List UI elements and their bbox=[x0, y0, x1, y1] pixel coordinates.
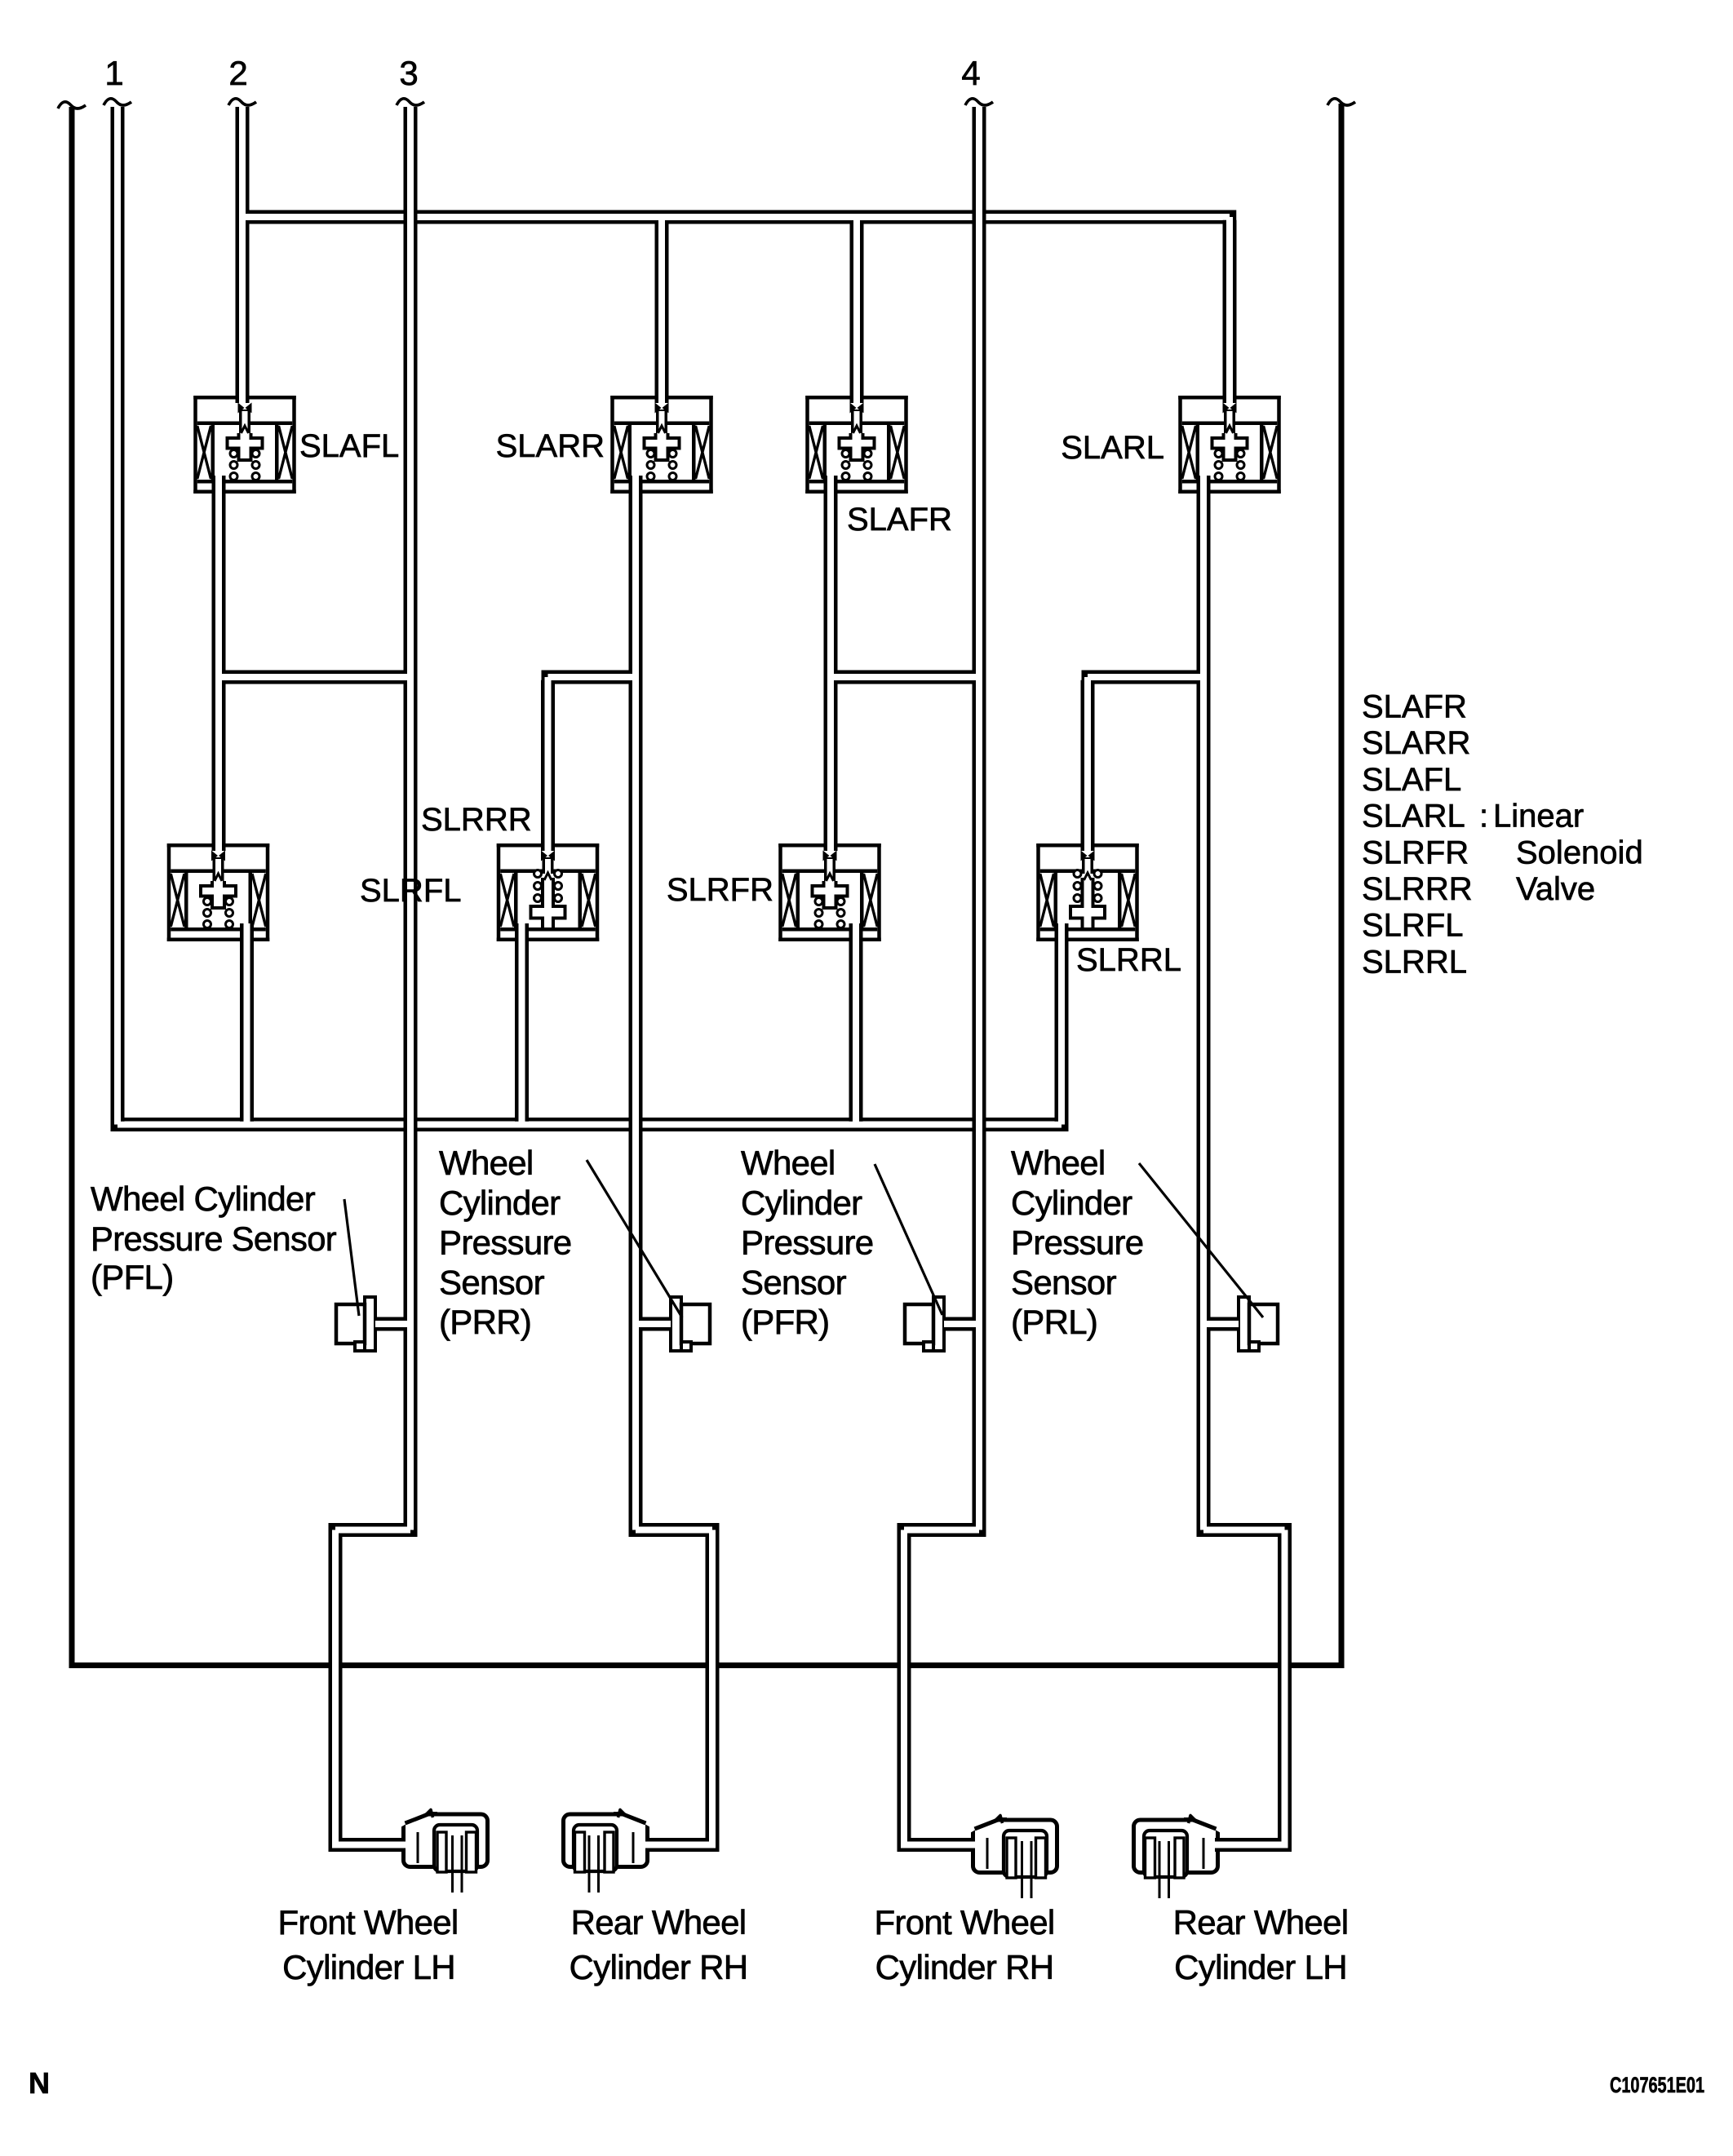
wire SLRRL inlet drop bbox=[1081, 680, 1095, 851]
wire RR connector entry interior bbox=[642, 1842, 716, 1848]
svg-text:SLRRL: SLRRL bbox=[1362, 944, 1467, 980]
valve SLAFL (linear solenoid, apply FL) bbox=[193, 396, 296, 494]
sensor PFL tap stub bbox=[375, 1317, 410, 1331]
valve SLRRL (linear solenoid, release RL) bbox=[1036, 843, 1139, 941]
svg-text:SLAFR: SLAFR bbox=[847, 502, 952, 538]
svg-text:Cylinder: Cylinder bbox=[741, 1184, 862, 1222]
rear wheel cylinder LH connector bbox=[1134, 1814, 1223, 1898]
wire return line (to line 1) bbox=[111, 1118, 1069, 1131]
wire FL wheel drop interior bbox=[332, 1530, 339, 1845]
svg-text:1: 1 bbox=[104, 54, 123, 92]
svg-text:2: 2 bbox=[228, 54, 247, 92]
rear wheel cylinder RH connector bbox=[564, 1808, 653, 1893]
svg-text:SLRFR: SLRFR bbox=[667, 872, 773, 908]
wire SLARL inlet drop bbox=[1223, 220, 1237, 403]
label C107651E01 bbox=[1610, 2073, 1704, 2097]
leader line PFL bbox=[344, 1199, 359, 1316]
callout wheel cylinder pressure sensor (PRR) bbox=[439, 1144, 571, 1341]
wire SLRRR inlet drop interior bbox=[545, 677, 552, 851]
legend valve list bbox=[1362, 689, 1473, 981]
label front wheel cylinder LH bbox=[277, 1903, 458, 1986]
wire SLARL outlet (RL wheel line) bbox=[1197, 476, 1211, 1527]
wire RL wheel drop bbox=[1278, 1533, 1292, 1842]
callout wheel cylinder pressure sensor (PRL) bbox=[1011, 1144, 1143, 1341]
svg-text:Pressure: Pressure bbox=[741, 1224, 873, 1262]
svg-text:Wheel: Wheel bbox=[741, 1144, 835, 1182]
svg-text:Cylinder: Cylinder bbox=[1011, 1184, 1132, 1222]
callout wheel cylinder pressure sensor (PFL) bbox=[91, 1180, 337, 1296]
valve SLARR (linear solenoid, apply RR) bbox=[610, 396, 713, 494]
wire FL wheel junction jog interior bbox=[219, 674, 410, 680]
svg-text:Cylinder RH: Cylinder RH bbox=[875, 1948, 1054, 1986]
svg-text:Cylinder: Cylinder bbox=[439, 1184, 561, 1222]
svg-text:Wheel: Wheel bbox=[1011, 1144, 1106, 1182]
svg-text:Cylinder RH: Cylinder RH bbox=[570, 1948, 748, 1986]
svg-text:(PFR): (PFR) bbox=[741, 1303, 829, 1341]
wire RL connector entry bbox=[1215, 1838, 1292, 1852]
valve SLRRR (linear solenoid, release RR) bbox=[497, 843, 600, 941]
sensor PRR tap stub bbox=[636, 1317, 671, 1331]
wire RR lower jog interior bbox=[636, 1527, 712, 1534]
leader line PFR bbox=[875, 1164, 942, 1315]
wheel cylinder pressure sensor PFR body bbox=[905, 1297, 944, 1351]
svg-text:Front Wheel: Front Wheel bbox=[874, 1903, 1054, 1941]
wire RL lower jog interior bbox=[1203, 1527, 1285, 1534]
wire master line 3 (FL wheel line) bbox=[397, 99, 424, 1527]
wire header H1 (line 2 manifold to apply valves) bbox=[242, 210, 1236, 224]
svg-text:Cylinder LH: Cylinder LH bbox=[1174, 1948, 1347, 1986]
label SLRRR bbox=[421, 802, 532, 838]
svg-text:SLAFL: SLAFL bbox=[299, 428, 399, 464]
wire SLRRR outlet to return interior bbox=[519, 923, 525, 1125]
wire master line 4 (FR wheel line) bbox=[965, 99, 993, 1527]
svg-text:N: N bbox=[29, 2066, 50, 2100]
svg-text:SLAFL: SLAFL bbox=[1362, 762, 1461, 798]
wheel cylinder pressure sensor PRR body bbox=[671, 1297, 710, 1351]
node label 3 bbox=[399, 54, 418, 92]
wire RL wheel junction jog bbox=[1082, 671, 1211, 684]
wire RR connector entry bbox=[645, 1838, 720, 1852]
wire master line 2 (to SLAFL) bbox=[228, 99, 256, 403]
wire FL connector entry bbox=[329, 1838, 406, 1852]
label rear wheel cylinder LH bbox=[1173, 1903, 1349, 1986]
label rear wheel cylinder RH bbox=[570, 1903, 748, 1986]
wire RL wheel junction jog interior bbox=[1088, 674, 1203, 680]
wire return line 1 bbox=[104, 99, 131, 1122]
wire SLRFR outlet to return bbox=[849, 923, 863, 1122]
wire SLARL outlet (RL wheel line) interior bbox=[1200, 476, 1207, 1530]
wire FR wheel drop bbox=[898, 1533, 911, 1842]
wire FR wheel junction jog interior bbox=[831, 674, 979, 680]
wire SLRRR inlet drop bbox=[541, 680, 555, 851]
svg-text:Wheel Cylinder: Wheel Cylinder bbox=[91, 1180, 316, 1218]
wire SLARR outlet (RR wheel line) bbox=[629, 476, 643, 1527]
wire RL lower jog bbox=[1197, 1523, 1292, 1537]
wire RL wheel drop interior bbox=[1282, 1530, 1288, 1845]
svg-text:Cylinder LH: Cylinder LH bbox=[282, 1948, 455, 1986]
valve SLRFR (linear solenoid, release FR) bbox=[778, 843, 881, 941]
svg-text:Pressure: Pressure bbox=[1011, 1224, 1143, 1262]
wire SLARR inlet drop bbox=[655, 224, 669, 403]
node label 2 bbox=[228, 54, 247, 92]
wire FR lower jog bbox=[898, 1523, 986, 1537]
svg-text:SLRFL: SLRFL bbox=[360, 873, 462, 909]
valve SLAFR (linear solenoid, apply FR) bbox=[805, 396, 908, 494]
svg-text:C107651E01: C107651E01 bbox=[1610, 2073, 1704, 2097]
valve SLARL (linear solenoid, apply RL) bbox=[1178, 396, 1281, 494]
label SLRFL bbox=[360, 873, 462, 909]
wire FR connector entry bbox=[898, 1838, 976, 1852]
wire FR wheel drop interior bbox=[901, 1530, 907, 1845]
label SLAFR bbox=[847, 502, 952, 538]
svg-text:SLARR: SLARR bbox=[1362, 725, 1470, 761]
wire SLARL inlet drop interior bbox=[1226, 217, 1233, 403]
wire FL wheel junction jog bbox=[212, 671, 418, 684]
wire return line 1 interior bbox=[114, 107, 121, 1125]
svg-text:Wheel: Wheel bbox=[439, 1144, 534, 1182]
label SLARR bbox=[496, 428, 605, 464]
label SLRRL bbox=[1076, 942, 1181, 978]
svg-text:(PFL): (PFL) bbox=[91, 1258, 174, 1296]
svg-text::: : bbox=[1479, 799, 1488, 835]
svg-text:Rear Wheel: Rear Wheel bbox=[571, 1903, 747, 1941]
wire FL connector entry interior bbox=[332, 1842, 409, 1848]
actuator housing bottom border bbox=[69, 1662, 1345, 1668]
svg-text:Valve: Valve bbox=[1516, 871, 1595, 907]
wire RR lower jog bbox=[629, 1523, 720, 1537]
svg-text:SLRRR: SLRRR bbox=[1362, 871, 1473, 907]
svg-text:SLRFL: SLRFL bbox=[1362, 908, 1464, 944]
wire SLAFL outlet to SLRFL bbox=[212, 476, 226, 851]
wire SLAFL outlet to SLRFL interior bbox=[215, 476, 222, 851]
wire SLARR inlet drop interior bbox=[658, 217, 665, 403]
svg-text:SLARL: SLARL bbox=[1362, 799, 1465, 835]
svg-text:Pressure: Pressure bbox=[439, 1224, 571, 1262]
svg-text:Solenoid: Solenoid bbox=[1516, 835, 1643, 870]
svg-text:Sensor: Sensor bbox=[741, 1263, 847, 1301]
actuator housing right border bbox=[1327, 99, 1355, 1668]
svg-text:SLAFR: SLAFR bbox=[1362, 689, 1467, 725]
wire SLRRL inlet drop interior bbox=[1084, 677, 1091, 851]
svg-text:(PRL): (PRL) bbox=[1011, 1303, 1097, 1341]
callout wheel cylinder pressure sensor (PFR) bbox=[741, 1144, 873, 1341]
front wheel cylinder RH connector bbox=[968, 1814, 1057, 1898]
leader line PRL bbox=[1139, 1163, 1263, 1317]
wire FR wheel junction jog bbox=[824, 671, 986, 684]
wire SLARR outlet (RR wheel line) interior bbox=[632, 476, 639, 1530]
svg-text:(PRR): (PRR) bbox=[439, 1303, 531, 1341]
svg-text:SLRFR: SLRFR bbox=[1362, 835, 1469, 870]
sensor PRL tap stub bbox=[1203, 1317, 1239, 1331]
node label 4 bbox=[961, 54, 980, 92]
wire SLRRR outlet to return bbox=[515, 923, 529, 1122]
legend : Linear Solenoid Valve bbox=[1479, 799, 1643, 907]
svg-text:Front Wheel: Front Wheel bbox=[277, 1903, 458, 1941]
svg-text:SLRRR: SLRRR bbox=[421, 802, 532, 838]
label SLRFR bbox=[667, 872, 773, 908]
wire SLRFL outlet to return interior bbox=[244, 923, 250, 1125]
wire SLRRL outlet to return bbox=[1055, 923, 1069, 1122]
wheel cylinder pressure sensor PRL body bbox=[1239, 1297, 1278, 1351]
svg-text:Linear: Linear bbox=[1493, 799, 1584, 835]
svg-text:3: 3 bbox=[399, 54, 418, 92]
svg-text:Sensor: Sensor bbox=[439, 1263, 545, 1301]
wire RR wheel drop interior bbox=[709, 1530, 716, 1845]
wire SLAFR inlet drop bbox=[850, 224, 864, 403]
wire SLRRL outlet to return interior bbox=[1058, 923, 1065, 1125]
wire SLAFR inlet drop interior bbox=[853, 217, 860, 403]
svg-text:SLRRL: SLRRL bbox=[1076, 942, 1181, 978]
wire FR lower jog interior bbox=[904, 1527, 979, 1534]
valve SLRFL (linear solenoid, release FL) bbox=[167, 843, 270, 941]
svg-text:Pressure Sensor: Pressure Sensor bbox=[91, 1220, 337, 1258]
wire RR wheel drop bbox=[706, 1533, 720, 1842]
wire SLRFR outlet to return interior bbox=[853, 923, 859, 1125]
sensor PFR tap stub bbox=[944, 1317, 979, 1331]
wire RL connector entry interior bbox=[1212, 1842, 1288, 1848]
label front wheel cylinder RH bbox=[874, 1903, 1054, 1986]
label SLARL bbox=[1061, 430, 1164, 466]
wire RR wheel junction jog bbox=[542, 671, 643, 684]
wire SLAFR outlet to SLRFR bbox=[824, 476, 838, 851]
wire SLAFR outlet to SLRFR interior bbox=[827, 476, 834, 851]
svg-text:Rear Wheel: Rear Wheel bbox=[1173, 1903, 1349, 1941]
svg-text:4: 4 bbox=[961, 54, 980, 92]
label SLAFL bbox=[299, 428, 399, 464]
wire FL wheel drop bbox=[329, 1533, 343, 1842]
wire RR wheel junction jog interior bbox=[548, 674, 636, 680]
svg-text:Sensor: Sensor bbox=[1011, 1263, 1117, 1301]
wire master line 3 (FL wheel line) interior bbox=[407, 107, 414, 1530]
front wheel cylinder LH connector bbox=[399, 1808, 488, 1893]
leader line PRR bbox=[587, 1160, 682, 1317]
wire master line 4 (FR wheel line) interior bbox=[976, 107, 982, 1530]
svg-text:SLARL: SLARL bbox=[1061, 430, 1164, 466]
wire FL lower jog interior bbox=[335, 1527, 410, 1534]
wire SLRFL outlet to return bbox=[240, 923, 254, 1122]
node label 1 bbox=[104, 54, 123, 92]
wire FL lower jog bbox=[329, 1523, 418, 1537]
wheel cylinder pressure sensor PFL body bbox=[336, 1297, 375, 1351]
wire FR connector entry interior bbox=[901, 1842, 978, 1848]
svg-text:SLARR: SLARR bbox=[496, 428, 605, 464]
label N bbox=[29, 2066, 50, 2100]
actuator housing left border bbox=[58, 102, 86, 1668]
